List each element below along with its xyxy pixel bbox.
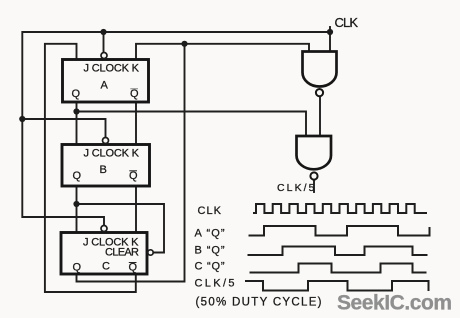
wire Q_C riser bbox=[77, 44, 185, 282]
waveform CLK bbox=[253, 204, 427, 213]
svg-text:Q: Q bbox=[73, 262, 82, 274]
nand gate U1 bbox=[303, 52, 337, 97]
svg-text:CLK: CLK bbox=[198, 205, 222, 217]
svg-text:B: B bbox=[100, 164, 107, 176]
svg-text:Q: Q bbox=[130, 88, 139, 100]
nand U2 body bbox=[297, 136, 332, 169]
wire CLK entry stub bbox=[329, 27, 331, 52]
node CLK junction bbox=[327, 29, 333, 35]
waveform A Q bbox=[249, 226, 430, 236]
node clock B tap bbox=[19, 116, 25, 122]
svg-text:B “Q”: B “Q” bbox=[195, 245, 225, 257]
wire NAND1 output to NAND2 input bbox=[319, 96, 321, 136]
flip-flop C bbox=[61, 226, 153, 275]
svg-text:(50% DUTY CYCLE): (50% DUTY CYCLE) bbox=[196, 297, 322, 309]
svg-text:J CLOCK K: J CLOCK K bbox=[84, 63, 140, 75]
flip-flop C body bbox=[61, 233, 147, 275]
wire clock A drop bbox=[103, 32, 105, 53]
nand gate U2 bbox=[297, 136, 332, 180]
node clock A tap bbox=[100, 29, 106, 35]
svg-text:CLK/5: CLK/5 bbox=[277, 182, 315, 194]
node Q_A tap bbox=[73, 108, 79, 114]
svg-text:Q: Q bbox=[129, 262, 138, 274]
flip-flop A body bbox=[63, 60, 149, 103]
flip-flop A clock bubble bbox=[101, 53, 107, 59]
waveform CLK/5 bbox=[245, 281, 429, 291]
flip-flop C clock bubble bbox=[101, 226, 107, 232]
wire CLK top bus bbox=[22, 32, 330, 226]
svg-text:CLEAR: CLEAR bbox=[105, 247, 139, 259]
wire NAND2 output CLK/5 bbox=[313, 180, 315, 192]
svg-text:C: C bbox=[102, 261, 110, 273]
wire Q_A to NAND2 input bbox=[77, 112, 307, 137]
waveform C Q bbox=[250, 264, 427, 273]
svg-text:C “Q”: C “Q” bbox=[195, 261, 225, 273]
wire Qbar_C to rail2 to J_A bbox=[45, 44, 136, 292]
svg-text:Q: Q bbox=[72, 88, 81, 100]
node Q_B tap bbox=[73, 201, 79, 207]
svg-text:Q: Q bbox=[73, 170, 82, 182]
svg-text:A “Q”: A “Q” bbox=[195, 228, 225, 240]
svg-text:SeekIC.com: SeekIC.com bbox=[337, 292, 452, 315]
wire Q_B to CLEAR of C bbox=[77, 204, 165, 253]
timing labels bbox=[195, 205, 322, 309]
flip-flop B body bbox=[62, 145, 150, 187]
flip-flop B bbox=[62, 138, 150, 187]
nand U2 output bubble bbox=[310, 172, 317, 179]
wire Qbar_B to K_C bbox=[135, 186, 137, 233]
node K_A / NAND1 tap bbox=[181, 41, 187, 47]
flip-flop B clock bubble bbox=[103, 138, 109, 144]
svg-text:A: A bbox=[101, 80, 109, 92]
svg-text:CLK: CLK bbox=[335, 15, 359, 30]
waveform B Q bbox=[248, 247, 428, 256]
wire Q_C to K_A and NAND1 input bbox=[136, 44, 309, 60]
nand U1 output bubble bbox=[316, 89, 323, 96]
wire Qbar_A to K_B bbox=[135, 102, 137, 145]
wire clock B branch bbox=[22, 119, 105, 138]
svg-text:Q: Q bbox=[129, 170, 138, 182]
flip-flop A bbox=[63, 53, 149, 103]
wire Q_A to J_B bbox=[76, 102, 78, 145]
nand U1 body bbox=[303, 52, 337, 87]
wire Q_B to J_C bbox=[76, 186, 78, 233]
svg-text:J CLOCK K: J CLOCK K bbox=[84, 148, 140, 160]
flip-flop C clear bubble bbox=[148, 250, 153, 255]
svg-text:CLK/5: CLK/5 bbox=[195, 278, 235, 290]
